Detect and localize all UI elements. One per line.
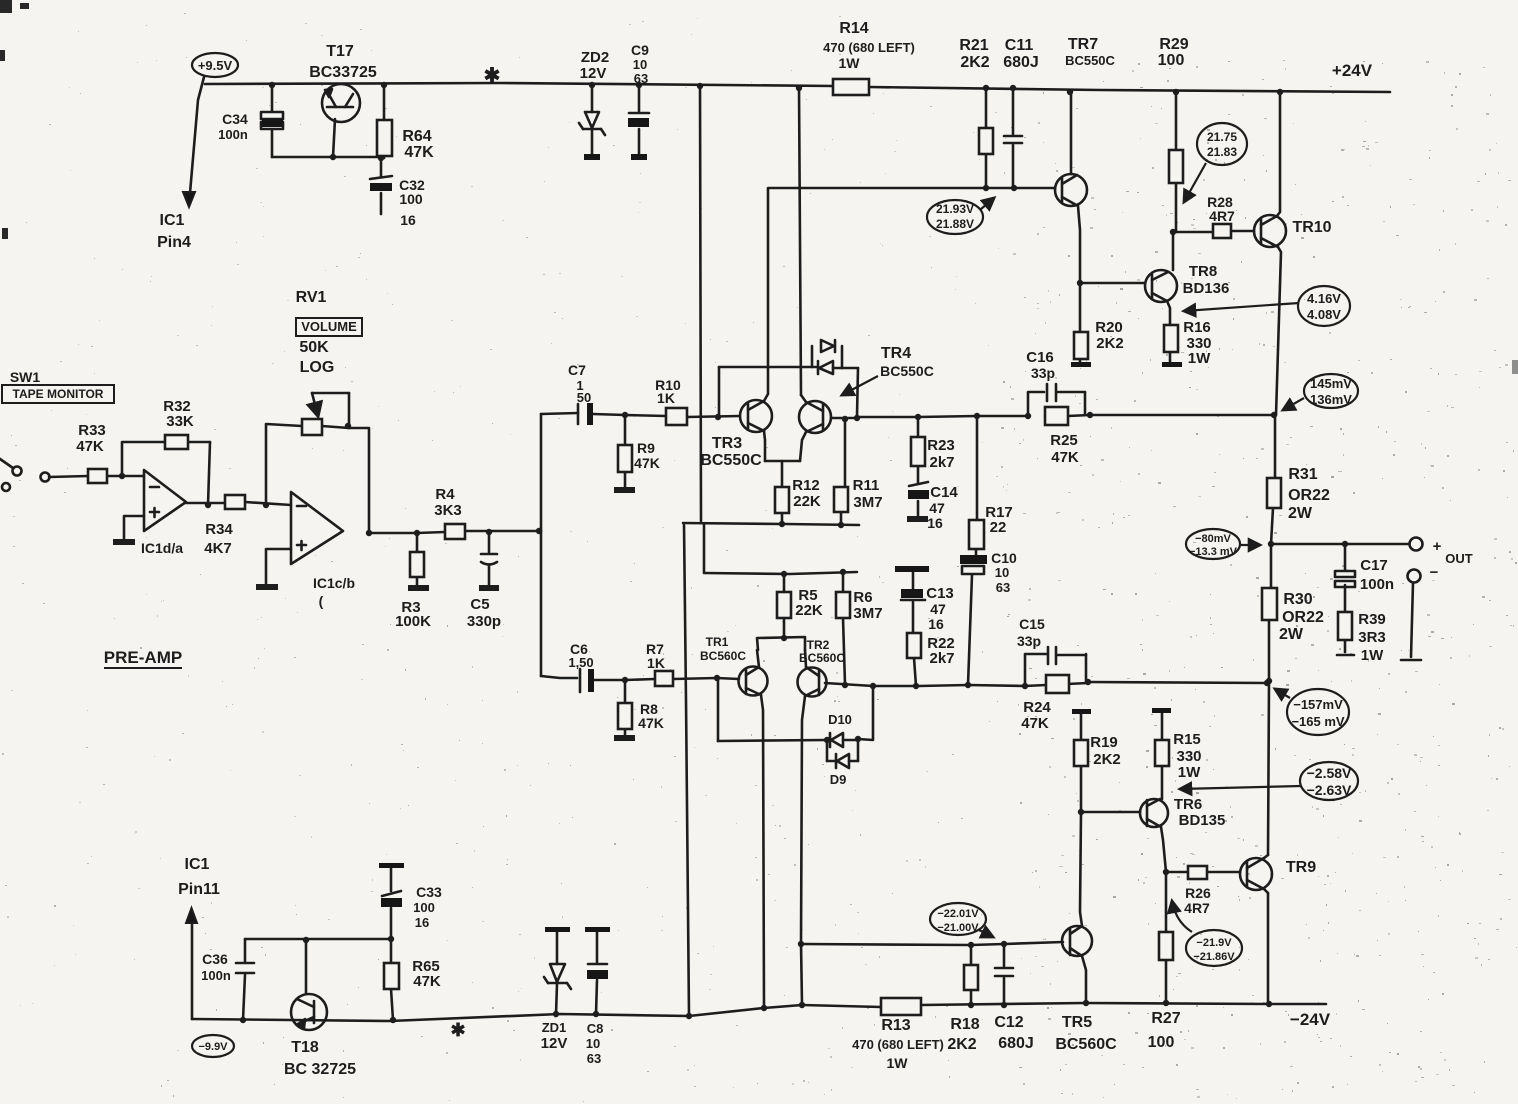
svg-text:1W: 1W xyxy=(1361,647,1384,664)
svg-text:BC560C: BC560C xyxy=(700,649,746,663)
svg-text:BC550C: BC550C xyxy=(1065,53,1115,68)
svg-text:PRE-AMP: PRE-AMP xyxy=(104,648,182,667)
svg-text:C10: C10 xyxy=(991,550,1017,566)
svg-text:R9: R9 xyxy=(637,440,655,456)
svg-text:R4: R4 xyxy=(435,486,455,503)
svg-text:47K: 47K xyxy=(1051,449,1079,466)
svg-text:R20: R20 xyxy=(1095,319,1123,336)
svg-text:IC1c/b: IC1c/b xyxy=(313,575,355,591)
svg-text:R18: R18 xyxy=(950,1016,979,1033)
svg-text:4.16V: 4.16V xyxy=(1307,291,1341,306)
svg-text:OR22: OR22 xyxy=(1288,487,1330,504)
svg-text:330: 330 xyxy=(1176,748,1201,765)
svg-text:C5: C5 xyxy=(470,596,489,613)
svg-text:TR1: TR1 xyxy=(706,635,729,649)
svg-text:✱: ✱ xyxy=(450,1020,465,1040)
svg-text:−157mV: −157mV xyxy=(1293,697,1343,712)
svg-text:−24V: −24V xyxy=(1290,1010,1331,1029)
svg-text:47K: 47K xyxy=(76,438,104,455)
svg-text:100: 100 xyxy=(1158,52,1185,69)
svg-text:+: + xyxy=(1433,538,1442,555)
svg-text:16: 16 xyxy=(927,515,943,531)
svg-text:T18: T18 xyxy=(291,1039,319,1056)
svg-text:BC550C: BC550C xyxy=(880,363,934,379)
svg-text:R12: R12 xyxy=(792,477,820,494)
svg-text:R11: R11 xyxy=(853,477,880,494)
svg-text:33K: 33K xyxy=(166,413,194,430)
svg-text:C7: C7 xyxy=(568,362,586,378)
svg-text:1W: 1W xyxy=(839,55,861,71)
svg-text:BC 32725: BC 32725 xyxy=(284,1061,356,1078)
svg-text:2W: 2W xyxy=(1279,626,1304,643)
svg-text:RV1: RV1 xyxy=(296,289,327,306)
svg-text:63: 63 xyxy=(587,1051,601,1066)
svg-text:T17: T17 xyxy=(326,43,354,60)
svg-text:−22.01V: −22.01V xyxy=(937,908,979,920)
svg-text:TR6: TR6 xyxy=(1174,796,1202,813)
svg-text:−21.86V: −21.86V xyxy=(1193,951,1235,963)
svg-text:100: 100 xyxy=(399,191,423,207)
svg-text:TR10: TR10 xyxy=(1292,219,1331,236)
svg-text:D10: D10 xyxy=(828,712,852,727)
svg-text:IC1: IC1 xyxy=(160,212,185,229)
svg-text:1,50: 1,50 xyxy=(568,655,593,670)
svg-text:3K3: 3K3 xyxy=(434,502,462,519)
svg-text:2K2: 2K2 xyxy=(947,1036,976,1053)
svg-text:BD135: BD135 xyxy=(1179,812,1226,829)
svg-text:TR7: TR7 xyxy=(1068,36,1098,53)
svg-text:12V: 12V xyxy=(580,65,607,82)
svg-text:21.75: 21.75 xyxy=(1207,130,1237,144)
svg-text:21.93V: 21.93V xyxy=(936,202,974,216)
svg-text:TR9: TR9 xyxy=(1286,859,1316,876)
svg-text:C12: C12 xyxy=(994,1014,1023,1031)
svg-text:R34: R34 xyxy=(205,521,233,538)
svg-text:C17: C17 xyxy=(1360,557,1388,574)
svg-text:R26: R26 xyxy=(1185,885,1211,901)
svg-text:−13.3 mV: −13.3 mV xyxy=(1189,546,1238,558)
svg-text:C14: C14 xyxy=(930,484,958,501)
svg-text:50K: 50K xyxy=(299,339,329,356)
svg-text:+9.5V: +9.5V xyxy=(198,58,233,73)
svg-text:3M7: 3M7 xyxy=(853,494,882,511)
svg-text:R25: R25 xyxy=(1050,432,1078,449)
svg-text:47K: 47K xyxy=(638,715,664,731)
svg-text:−: − xyxy=(1430,564,1439,581)
svg-text:TR3: TR3 xyxy=(712,435,742,452)
svg-text:47K: 47K xyxy=(634,455,660,471)
svg-text:R13: R13 xyxy=(881,1017,910,1034)
svg-text:VOLUME: VOLUME xyxy=(301,319,357,334)
svg-text:C16: C16 xyxy=(1026,349,1054,366)
svg-text:R21: R21 xyxy=(959,37,988,54)
svg-text:22K: 22K xyxy=(795,602,823,619)
svg-text:10: 10 xyxy=(586,1036,600,1051)
svg-text:D9: D9 xyxy=(830,772,847,787)
svg-text:OR22: OR22 xyxy=(1282,609,1324,626)
svg-text:R64: R64 xyxy=(402,128,431,145)
svg-text:BC33725: BC33725 xyxy=(309,64,377,81)
svg-text:100: 100 xyxy=(1148,1034,1175,1051)
svg-text:R14: R14 xyxy=(839,20,868,37)
svg-text:4R7: 4R7 xyxy=(1184,900,1210,916)
svg-text:R15: R15 xyxy=(1173,731,1201,748)
svg-text:16: 16 xyxy=(928,616,944,632)
svg-text:C36: C36 xyxy=(202,951,228,967)
svg-text:100n: 100n xyxy=(201,968,231,983)
svg-text:TR2: TR2 xyxy=(807,638,830,652)
svg-text:4.08V: 4.08V xyxy=(1307,307,1341,322)
svg-text:47K: 47K xyxy=(404,144,434,161)
svg-text:−9.9V: −9.9V xyxy=(198,1041,228,1053)
svg-text:2K2: 2K2 xyxy=(960,54,989,71)
svg-text:470 (680 LEFT): 470 (680 LEFT) xyxy=(852,1037,944,1052)
svg-text:470 (680 LEFT): 470 (680 LEFT) xyxy=(823,40,915,55)
svg-text:R19: R19 xyxy=(1090,734,1118,751)
svg-text:12V: 12V xyxy=(541,1035,568,1052)
svg-text:3M7: 3M7 xyxy=(853,605,882,622)
svg-text:63: 63 xyxy=(996,580,1010,595)
svg-text:C8: C8 xyxy=(587,1021,604,1036)
svg-text:1K: 1K xyxy=(647,655,665,671)
svg-text:3R3: 3R3 xyxy=(1358,629,1386,646)
svg-text:1W: 1W xyxy=(887,1055,909,1071)
svg-text:50: 50 xyxy=(577,390,591,405)
svg-text:4K7: 4K7 xyxy=(204,540,232,557)
svg-text:R16: R16 xyxy=(1183,319,1211,336)
svg-text:47K: 47K xyxy=(1021,715,1049,732)
svg-text:IC1d/a: IC1d/a xyxy=(141,540,183,556)
svg-text:16: 16 xyxy=(400,212,416,228)
svg-text:21.88V: 21.88V xyxy=(936,217,974,231)
svg-text:−2.58V: −2.58V xyxy=(1307,765,1352,781)
svg-text:100n: 100n xyxy=(1360,576,1394,593)
svg-text:47: 47 xyxy=(929,500,945,516)
svg-text:OUT: OUT xyxy=(1445,551,1473,566)
svg-text:−2.63V: −2.63V xyxy=(1307,782,1352,798)
svg-text:1W: 1W xyxy=(1178,764,1201,781)
svg-text:IC1: IC1 xyxy=(185,856,210,873)
svg-text:22: 22 xyxy=(990,519,1007,536)
svg-text:BC550C: BC550C xyxy=(700,452,762,469)
svg-text:1W: 1W xyxy=(1188,350,1211,367)
svg-text:TAPE MONITOR: TAPE MONITOR xyxy=(13,387,104,401)
svg-text:−80mV: −80mV xyxy=(1195,533,1231,545)
svg-text:R39: R39 xyxy=(1358,611,1386,628)
svg-text:TR4: TR4 xyxy=(881,345,911,362)
svg-text:22K: 22K xyxy=(793,493,821,510)
svg-text:63: 63 xyxy=(634,71,648,86)
svg-text:33p: 33p xyxy=(1017,633,1041,649)
svg-text:2W: 2W xyxy=(1288,505,1313,522)
svg-text:R30: R30 xyxy=(1283,591,1312,608)
svg-text:1K: 1K xyxy=(657,390,675,406)
svg-text:145mV: 145mV xyxy=(1310,376,1352,391)
svg-text:R23: R23 xyxy=(927,437,955,454)
svg-text:TR8: TR8 xyxy=(1189,263,1217,280)
svg-text:BD136: BD136 xyxy=(1183,280,1230,297)
svg-text:47K: 47K xyxy=(413,973,441,990)
svg-text:+24V: +24V xyxy=(1332,61,1373,80)
svg-text:R33: R33 xyxy=(78,422,106,439)
svg-text:10: 10 xyxy=(633,57,647,72)
svg-text:680J: 680J xyxy=(1003,54,1039,71)
svg-text:100K: 100K xyxy=(395,613,431,630)
svg-text:BC560C: BC560C xyxy=(799,651,845,665)
svg-text:−165 mV: −165 mV xyxy=(1291,714,1344,729)
svg-text:ZD1: ZD1 xyxy=(542,1020,567,1035)
svg-text:R6: R6 xyxy=(853,589,872,606)
svg-text:33p: 33p xyxy=(1031,365,1055,381)
svg-text:✱: ✱ xyxy=(484,65,501,87)
svg-text:R24: R24 xyxy=(1023,699,1051,716)
svg-text:Pin11: Pin11 xyxy=(178,881,220,898)
svg-text:10: 10 xyxy=(995,565,1009,580)
svg-text:16: 16 xyxy=(415,915,429,930)
svg-text:Pin4: Pin4 xyxy=(157,234,191,251)
svg-text:(: ( xyxy=(319,593,324,609)
svg-text:330p: 330p xyxy=(467,613,501,630)
svg-text:R29: R29 xyxy=(1159,36,1188,53)
svg-text:BC560C: BC560C xyxy=(1055,1036,1117,1053)
svg-text:−21.00V: −21.00V xyxy=(937,922,979,934)
svg-text:C34: C34 xyxy=(222,111,248,127)
svg-text:C15: C15 xyxy=(1019,616,1045,632)
svg-text:2k7: 2k7 xyxy=(929,454,954,471)
svg-text:C13: C13 xyxy=(926,585,954,602)
svg-text:TR5: TR5 xyxy=(1062,1014,1092,1031)
svg-text:R31: R31 xyxy=(1288,466,1317,483)
svg-text:C11: C11 xyxy=(1005,37,1034,54)
svg-text:100n: 100n xyxy=(218,127,248,142)
svg-text:21.83: 21.83 xyxy=(1207,145,1237,159)
svg-text:LOG: LOG xyxy=(300,359,335,376)
svg-text:136mV: 136mV xyxy=(1310,392,1352,407)
svg-text:47: 47 xyxy=(930,601,946,617)
svg-text:SW1: SW1 xyxy=(10,369,41,385)
svg-text:−21.9V: −21.9V xyxy=(1196,937,1232,949)
svg-text:C9: C9 xyxy=(631,42,649,58)
svg-text:ZD2: ZD2 xyxy=(581,49,609,66)
svg-text:R27: R27 xyxy=(1151,1010,1180,1027)
svg-text:100: 100 xyxy=(413,900,435,915)
svg-text:4R7: 4R7 xyxy=(1209,208,1235,224)
svg-text:680J: 680J xyxy=(998,1035,1034,1052)
svg-text:2K2: 2K2 xyxy=(1096,335,1124,352)
svg-text:2K2: 2K2 xyxy=(1093,751,1121,768)
svg-text:C33: C33 xyxy=(416,884,442,900)
svg-text:2k7: 2k7 xyxy=(929,650,954,667)
